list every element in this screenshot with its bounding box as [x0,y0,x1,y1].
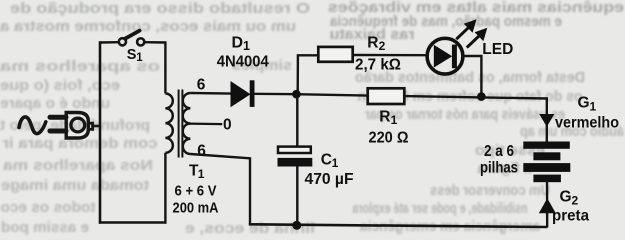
wire: battery to G2 arrow [546,180,549,228]
AC sine symbol [19,117,46,134]
wire: C1 bottom lead [296,167,298,226]
wire: C1 top lead [296,94,298,146]
wire: secondary bottom vertical [249,157,251,224]
svg-text:nsibilidade, e pode ser até ex: nsibilidade, e pode ser até explora [352,200,527,217]
svg-text:220 Ω: 220 Ω [369,129,409,146]
svg-text:todos os eco: todos os eco [1,199,96,216]
resistor R2 [318,47,352,62]
label G2 [560,188,579,207]
value label 470 uF [305,171,354,188]
svg-text:G: G [560,188,572,205]
value label 6+6V [175,183,217,200]
svg-text:1: 1 [198,167,205,181]
value label 2,7 kOhm [355,56,401,73]
svg-text:200 mA: 200 mA [173,200,219,217]
wire: secondary bottom tap [190,154,250,158]
svg-text:Um conversor dess: Um conversor dess [430,182,550,199]
wire: primary top-left segment to switch [100,41,119,44]
svg-text:pilhas: pilhas [480,160,518,177]
svg-text:LED: LED [482,41,513,58]
svg-text:2: 2 [379,39,386,53]
label D1 [232,35,251,53]
pin label 0 (center tap) [223,116,232,133]
svg-text:0: 0 [223,116,232,133]
transformer T1 secondary winding [183,93,191,154]
svg-text:tomada uma image: tomada uma image [1,177,149,194]
wire: bottom rail [249,224,548,227]
wire: node A to R1 [295,94,367,95]
wire: diode to node A [254,93,297,96]
svg-text:preta: preta [552,207,589,224]
node B (LED branch joins rail) [477,92,486,101]
svg-text:G: G [578,94,590,111]
svg-text:1: 1 [243,39,250,53]
label T1 [189,162,205,181]
wire: switch to primary top corner [144,41,165,44]
LED [427,38,463,74]
plug P1 [50,113,93,139]
svg-text:4N4004: 4N4004 [217,53,269,70]
wire: primary right vertical upper [164,41,166,93]
svg-text:R: R [379,109,390,126]
terminal G2 arrow [539,198,556,213]
value label 4N4004 [217,53,269,70]
svg-text:6: 6 [197,143,206,160]
wire: primary right vertical lower [164,153,166,224]
label R2 [367,35,385,54]
battery B1 plate 2 [533,152,560,160]
pin label 6 (secondary top) [197,77,206,94]
svg-text:undo é o apare: undo é o apare [0,95,110,112]
svg-text:eco, fois (o que: eco, fois (o que [0,77,120,94]
wire: R1 to rail corner [404,96,547,98]
wire: LED to drop corner [462,56,481,97]
wire: rail corner down to G1 arrow [546,97,548,142]
LED arrow 2 [467,28,488,48]
label S1 [127,47,144,64]
label 2 a 6 [484,143,514,160]
svg-text:2: 2 [572,193,579,207]
wire: riser to R2 branch [298,55,319,94]
label LED [482,41,513,58]
svg-text:vermelho: vermelho [555,115,619,132]
transformer T1 primary winding [165,94,172,153]
wire: plug tip to left vertical [93,125,101,128]
resistor R1 [368,88,405,104]
wire: center tap stub [189,122,222,125]
node C (C1 on bottom rail) [292,221,301,230]
svg-text:e assim pod: e assim pod [1,219,89,236]
transformer T1 core [179,90,183,158]
label C1 [321,151,339,170]
svg-text:1: 1 [332,156,339,170]
wire: primary loop bottom [99,221,167,224]
battery B1 plate 3 [523,163,570,172]
svg-text:1: 1 [136,52,143,64]
diode D1 [231,80,255,107]
battery B1 plate 1 [523,142,570,149]
capacitor C1 [278,147,313,167]
svg-text:R: R [367,35,378,52]
value label 220 Ohm [369,129,409,146]
label vermelho [555,115,619,132]
svg-text:S: S [127,47,137,63]
label G1 [578,94,597,113]
node A (diode/R2/C1 junction) [292,90,301,99]
svg-text:1: 1 [590,99,597,113]
svg-text:D: D [232,35,244,52]
label R1 [379,109,397,128]
wire: R2 to LED [353,54,426,57]
svg-text:1: 1 [391,113,398,127]
svg-text:2 a 6: 2 a 6 [484,143,514,160]
terminal G1 arrow [539,114,554,127]
svg-text:O resultado disso era produção: O resultado disso era produção de [10,0,310,17]
svg-text:470 µF: 470 µF [305,171,354,188]
switch S1 [119,31,144,46]
LED arrow 1 [456,19,476,39]
label preta [552,207,589,224]
wire: secondary top tap to diode [190,92,231,95]
label pilhas [480,160,518,177]
svg-text:6 + 6 V: 6 + 6 V [175,183,217,200]
svg-text:C: C [321,151,332,168]
pin label 6 (secondary bottom) [197,143,206,160]
svg-text:Nos aparelhos ma: Nos aparelhos ma [2,157,153,174]
value label 200 mA [173,200,219,217]
svg-text:um ou mais ecos, conforme most: um ou mais ecos, conforme mostra a [0,18,296,35]
svg-text:2,7 kΩ: 2,7 kΩ [355,56,401,73]
svg-text:6: 6 [197,77,206,94]
battery B1 plate 4 [533,175,561,183]
wire: left vertical (mains side) [99,41,102,223]
